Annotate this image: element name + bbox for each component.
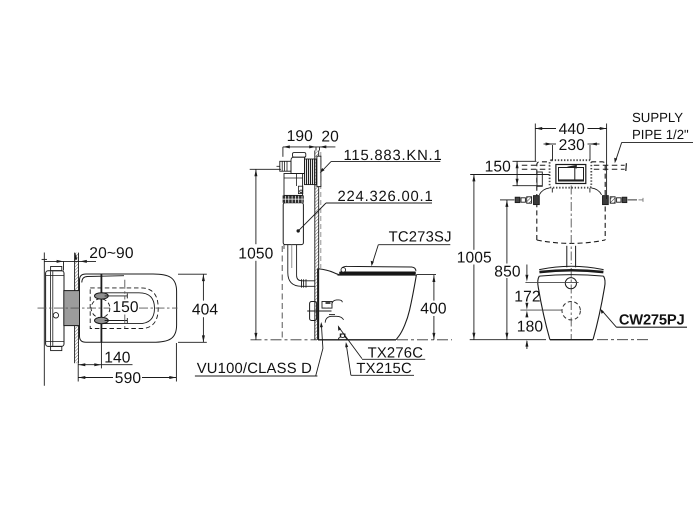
svg-text:180: 180 [517,319,544,336]
svg-text:440: 440 [559,121,586,138]
svg-text:230: 230 [559,137,586,154]
svg-text:PIPE 1/2": PIPE 1/2" [632,127,689,142]
svg-text:SUPPLY: SUPPLY [632,110,683,125]
svg-text:VU100/CLASS D: VU100/CLASS D [197,361,312,377]
svg-text:TX276C: TX276C [368,346,424,362]
svg-text:190: 190 [287,128,314,145]
svg-text:850: 850 [494,263,521,280]
svg-text:TC273SJ: TC273SJ [389,230,452,246]
svg-text:172: 172 [514,288,540,305]
svg-text:1005: 1005 [457,249,492,266]
svg-text:20~90: 20~90 [89,245,134,262]
svg-text:404: 404 [192,302,219,319]
svg-text:140: 140 [104,350,131,367]
svg-text:CW275PJ: CW275PJ [619,313,685,329]
svg-text:1050: 1050 [238,246,273,263]
svg-text:150: 150 [112,299,139,316]
svg-text:400: 400 [420,300,447,317]
svg-text:150: 150 [485,159,512,176]
svg-text:20: 20 [321,129,339,146]
svg-text:224.326.00.1: 224.326.00.1 [338,189,434,205]
svg-text:TX215C: TX215C [356,361,412,377]
svg-text:590: 590 [115,370,142,387]
svg-text:115.883.KN.1: 115.883.KN.1 [344,148,443,164]
